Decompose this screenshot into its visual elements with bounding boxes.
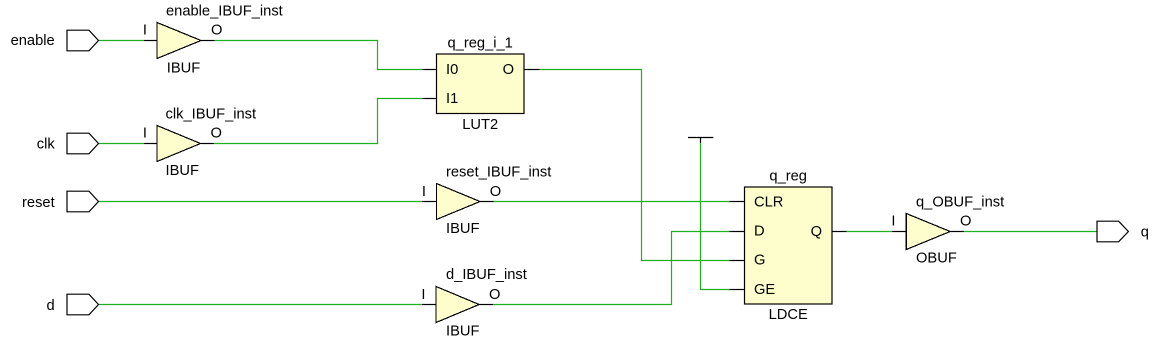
svg-text:I: I (143, 126, 147, 142)
svg-text:O: O (503, 62, 514, 78)
svg-text:O: O (490, 184, 501, 200)
svg-text:d_IBUF_inst: d_IBUF_inst (446, 267, 527, 283)
svg-text:I1: I1 (446, 91, 458, 107)
svg-text:I: I (421, 287, 425, 303)
svg-text:enable_IBUF_inst: enable_IBUF_inst (166, 3, 283, 19)
svg-text:I: I (891, 214, 895, 230)
svg-text:reset_IBUF_inst: reset_IBUF_inst (446, 165, 551, 181)
svg-text:q_reg: q_reg (769, 168, 807, 184)
svg-text:IBUF: IBUF (167, 61, 200, 77)
svg-text:I: I (422, 184, 426, 200)
svg-text:LUT2: LUT2 (462, 117, 498, 133)
svg-text:clk: clk (37, 136, 56, 152)
svg-text:O: O (489, 287, 500, 303)
svg-text:clk_IBUF_inst: clk_IBUF_inst (166, 106, 257, 122)
svg-text:d: d (47, 298, 55, 314)
svg-text:G: G (754, 253, 765, 269)
svg-text:IBUF: IBUF (166, 163, 199, 179)
svg-text:LDCE: LDCE (769, 307, 808, 323)
svg-text:q: q (1141, 225, 1149, 241)
svg-text:IBUF: IBUF (446, 221, 479, 237)
svg-text:Q: Q (811, 224, 822, 240)
svg-text:IBUF: IBUF (446, 323, 479, 339)
svg-text:I: I (143, 23, 147, 39)
svg-text:O: O (211, 23, 222, 39)
svg-text:I0: I0 (446, 62, 458, 78)
svg-text:q_reg_i_1: q_reg_i_1 (448, 35, 513, 51)
svg-text:enable: enable (11, 33, 55, 49)
svg-text:OBUF: OBUF (916, 250, 957, 266)
svg-text:D: D (754, 223, 765, 239)
svg-text:reset: reset (22, 195, 55, 211)
svg-text:O: O (960, 214, 971, 230)
svg-text:CLR: CLR (754, 195, 783, 211)
svg-text:GE: GE (754, 282, 775, 298)
svg-text:O: O (211, 126, 222, 142)
svg-text:q_OBUF_inst: q_OBUF_inst (916, 194, 1004, 210)
